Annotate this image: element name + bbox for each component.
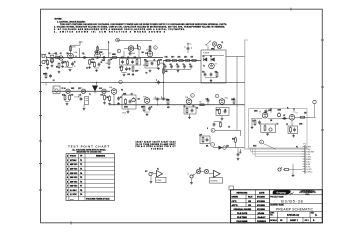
ground harness — [239, 149, 242, 154]
stage box V5 — [184, 107, 196, 114]
ground below lamp — [58, 71, 61, 74]
svg-text:07/13/98: 07/13/98 — [257, 205, 266, 207]
svg-text:CK'D: CK'D — [232, 201, 237, 203]
zone tick right B — [321, 86, 324, 88]
wire lamp drop — [214, 46, 216, 50]
svg-text:LEV: LEV — [199, 134, 202, 136]
capacitor C39 — [258, 120, 261, 124]
svg-text:VOLTAGES TAKEN AT IDLE: VOLTAGES TAKEN AT IDLE — [86, 197, 110, 200]
connector pin labels — [306, 146, 315, 173]
stage box V4 — [122, 95, 136, 109]
svg-text:T3: T3 — [80, 169, 82, 171]
svg-text:APP'D: APP'D — [232, 204, 239, 207]
circled X node — [116, 38, 120, 42]
connector pins — [303, 147, 306, 172]
wire v4b join — [144, 111, 150, 113]
svg-text:07/13/98: 07/13/98 — [257, 209, 266, 211]
capacitor CP2 — [210, 72, 213, 76]
svg-text:.02: .02 — [127, 57, 129, 59]
tube V1B — [95, 51, 101, 59]
svg-text:68K: 68K — [55, 53, 58, 55]
jack J4 — [187, 174, 194, 179]
resistor R42 in box — [290, 126, 292, 133]
revision table rows — [231, 194, 270, 218]
svg-text:.01: .01 — [53, 80, 55, 82]
circled node K — [313, 100, 316, 117]
chassis box corner — [245, 40, 303, 149]
wire main signal bus — [46, 57, 163, 59]
resistor R28 under V5B — [220, 121, 222, 128]
small rect above title block — [229, 186, 234, 190]
V7 sub box — [288, 126, 298, 134]
capacitor top CF6 — [187, 46, 190, 53]
svg-text:T8: T8 — [80, 190, 82, 192]
revision table column — [255, 190, 257, 223]
wire V1B plate — [97, 46, 99, 53]
wire r44 drop — [292, 164, 294, 174]
svg-text:B+: B+ — [190, 44, 192, 46]
capacitor C31 — [237, 152, 240, 156]
svg-text:250P: 250P — [135, 71, 139, 73]
svg-text:100K: 100K — [299, 124, 303, 126]
lamp L5 — [204, 169, 208, 173]
amp triangle A2 — [209, 170, 220, 177]
capacitor C8 — [129, 51, 136, 55]
power box outline — [201, 50, 226, 83]
svg-text:.02: .02 — [82, 53, 84, 55]
svg-text:09:45:17: 09:45:17 — [258, 216, 267, 219]
svg-text:P1: P1 — [296, 147, 298, 149]
svg-text:2: 2 — [67, 164, 68, 166]
wire filter bus — [163, 60, 201, 62]
zone tick bottom — [70, 222, 72, 225]
chart outer box — [66, 154, 115, 201]
junction dot rail 2 — [96, 82, 97, 83]
zone tick left D — [39, 140, 42, 142]
svg-text:#: # — [67, 156, 68, 158]
value labels bottom — [145, 128, 235, 173]
amp triangle A1 — [153, 171, 163, 178]
node arrow above filter — [187, 42, 191, 46]
circled grid 4 — [154, 46, 158, 50]
wire j4 up — [193, 172, 204, 176]
svg-text:D2: D2 — [210, 56, 212, 58]
pot in V6 box — [269, 128, 272, 131]
wire j6 to conn — [290, 169, 303, 171]
tube V6 — [259, 112, 268, 119]
ground V2 cathode — [149, 70, 152, 73]
svg-text:V4: V4 — [121, 90, 123, 92]
wire box drop — [127, 109, 129, 111]
svg-text:07/13/98: 07/13/98 — [257, 201, 266, 203]
resistor R10 tone — [127, 58, 129, 65]
svg-text:C4: C4 — [86, 68, 88, 70]
svg-text:2: 2 — [118, 51, 119, 53]
svg-text:220K: 220K — [123, 93, 127, 95]
ground v6 left — [251, 126, 254, 129]
tube V1A — [68, 51, 78, 59]
node arrow V7 — [293, 108, 295, 113]
svg-text:180 VDC: 180 VDC — [70, 181, 78, 183]
svg-text:P1: P1 — [304, 143, 306, 145]
capacitor C9 cathode — [151, 61, 154, 65]
resistor R24 — [186, 107, 188, 114]
svg-text:V1B: V1B — [95, 52, 98, 54]
rail drop left cluster cap — [49, 74, 52, 78]
ground J4 — [190, 182, 193, 185]
svg-text:325 VDC: 325 VDC — [70, 173, 78, 175]
capacitor CF2 — [170, 64, 173, 68]
label B+ points — [167, 56, 189, 59]
svg-text:8: 8 — [67, 190, 68, 192]
wire mid link — [129, 49, 131, 52]
jack J2 — [42, 60, 46, 64]
svg-text:820: 820 — [143, 65, 146, 67]
zone tick left B — [39, 91, 42, 93]
wire V1 grid vertical — [79, 48, 81, 58]
svg-text:F1: F1 — [54, 88, 56, 90]
capacitor C1 — [61, 60, 66, 64]
resistor R12 plate — [149, 45, 151, 52]
svg-text:T2: T2 — [203, 66, 205, 68]
pot VR6 — [277, 112, 280, 117]
svg-text:10K: 10K — [134, 57, 137, 59]
svg-text:R6: R6 — [67, 53, 69, 55]
capacitor C6 tone — [121, 60, 124, 69]
capacitor C26 — [207, 98, 210, 105]
pot VR5 — [132, 97, 135, 102]
zone tick top — [290, 8, 292, 11]
svg-text:T9: T9 — [80, 194, 82, 196]
value labels right section — [253, 108, 307, 127]
chart column line 3 — [84, 154, 86, 201]
junction v6 left — [251, 118, 252, 119]
rail drop left cluster resistor — [45, 72, 47, 79]
svg-text:820: 820 — [91, 62, 94, 64]
chart cell text — [67, 155, 110, 201]
tube V7 — [289, 113, 297, 121]
svg-text:10: 10 — [189, 64, 191, 66]
capacitor CF4 — [183, 64, 186, 68]
capacitor C7 tone — [131, 60, 134, 64]
junction dots above — [184, 46, 192, 48]
pot VR3 treble circled — [137, 46, 141, 57]
svg-text:1/14/98: 1/14/98 — [258, 212, 266, 215]
capacitor CH1 — [80, 97, 83, 101]
arrow mid filled — [137, 44, 139, 49]
lamp PL2 — [217, 44, 221, 48]
ground tone lower — [123, 74, 126, 77]
fuse box F1 — [53, 86, 60, 94]
tube chart text — [136, 141, 177, 151]
tube V2A — [146, 49, 153, 57]
junction dot filter in — [166, 60, 167, 61]
circled ref J5 — [260, 140, 264, 144]
resistor R9 series — [111, 54, 118, 58]
svg-text:6: 6 — [192, 95, 193, 97]
svg-text:300 VDC: 300 VDC — [70, 177, 78, 179]
svg-text:25: 25 — [225, 110, 227, 112]
svg-text:07/13/98: 07/13/98 — [257, 197, 266, 199]
circled num 7 — [215, 94, 219, 98]
resistor R21 — [125, 98, 127, 105]
svg-text:R17: R17 — [101, 95, 104, 97]
stage box V5B — [216, 108, 229, 116]
svg-text:.02: .02 — [283, 115, 285, 117]
capacitor C4 cathode — [98, 62, 101, 66]
wire j4 drop — [191, 178, 193, 181]
svg-text:REVERB: REVERB — [211, 180, 219, 182]
resistor RF2 — [171, 60, 178, 62]
resistor R44 — [283, 169, 290, 171]
tube V5B — [219, 98, 228, 105]
value labels stage V1 — [47, 53, 77, 68]
svg-text:PREAMP SCHEMATIC: PREAMP SCHEMATIC — [276, 208, 314, 212]
wire B+ top — [71, 44, 81, 46]
resistor RF5 — [191, 60, 198, 62]
capacitor C21 — [129, 99, 132, 103]
resistor R41 in box — [264, 125, 266, 132]
capacitor tone lower — [125, 67, 128, 71]
ground small circuit — [292, 174, 295, 177]
svg-text:6: 6 — [67, 181, 68, 183]
connector P1 body — [304, 143, 306, 173]
wire v6 plate up — [264, 110, 266, 113]
svg-text:.1: .1 — [155, 97, 156, 99]
ground stage box — [127, 111, 130, 114]
svg-text:100K: 100K — [231, 99, 235, 101]
svg-text:SCALE: SCALE — [270, 219, 277, 222]
wire V2 plate — [149, 46, 151, 52]
svg-text:1K: 1K — [253, 120, 255, 122]
zone tick left E — [39, 163, 42, 165]
resistor R30 — [235, 137, 237, 144]
svg-text:160 VDC: 160 VDC — [70, 186, 78, 188]
ground C1 — [61, 65, 64, 68]
lamp L4 — [196, 169, 200, 173]
can capacitor CH2 — [85, 97, 89, 105]
svg-text:SW2: SW2 — [71, 88, 74, 90]
V6 sub box — [261, 124, 276, 132]
wire tone lower join — [122, 71, 127, 73]
svg-text:50: 50 — [193, 105, 195, 107]
svg-text:T5: T5 — [80, 177, 82, 179]
box A2 — [210, 178, 223, 184]
svg-text:V3: V3 — [215, 64, 217, 66]
svg-text:C30: C30 — [226, 146, 229, 148]
svg-text:470K: 470K — [91, 59, 95, 61]
svg-text:B+: B+ — [81, 42, 83, 44]
resistor RF1 — [165, 60, 172, 62]
ground R20 — [108, 103, 111, 106]
svg-text:B3/B5-38: B3/B5-38 — [281, 200, 303, 204]
chart column line 1 — [68, 154, 70, 201]
ground J3 — [150, 181, 153, 184]
zone tick left A — [39, 65, 42, 67]
svg-text:VOLTS: VOLTS — [70, 156, 77, 158]
svg-text:1.2 VDC: 1.2 VDC — [70, 194, 77, 196]
revision table divider — [269, 190, 271, 223]
wire tone out — [123, 51, 125, 58]
svg-text:13050502: 13050502 — [257, 221, 267, 223]
dwg no cells — [277, 212, 279, 218]
svg-text:7: 7 — [216, 96, 217, 98]
resistor R23 — [167, 99, 169, 106]
svg-text:50: 50 — [277, 124, 279, 126]
svg-text:RCH: RCH — [248, 197, 253, 199]
ground power box — [210, 79, 213, 82]
svg-text:25: 25 — [74, 66, 76, 68]
wire switch drop — [207, 46, 209, 51]
svg-text:R16: R16 — [71, 95, 74, 97]
resistor in level box — [202, 136, 204, 143]
value labels heater row — [62, 87, 104, 96]
svg-text:3: 3 — [138, 48, 139, 50]
resistor R14 tail — [158, 59, 165, 66]
svg-text:220K: 220K — [99, 52, 103, 54]
capacitor C5 coupling — [102, 54, 107, 59]
wire cathode join 2 — [95, 67, 100, 69]
tube V4A — [109, 86, 117, 94]
junction dot rail 1 — [69, 82, 70, 83]
wire power bottom rail — [205, 77, 217, 79]
svg-text:SW1: SW1 — [211, 48, 214, 50]
capacitor C41 series — [282, 117, 286, 120]
tube V3 rectifier — [209, 63, 217, 69]
svg-text:C15: C15 — [79, 95, 82, 97]
wire box down right — [236, 57, 238, 105]
rail left cluster labels — [43, 74, 55, 82]
resistor R2 — [54, 55, 61, 59]
ground R5 — [88, 66, 91, 69]
svg-text:250K: 250K — [278, 110, 282, 112]
chart column line 2 — [78, 154, 80, 201]
svg-text:10 GRY: 10 GRY — [306, 169, 313, 171]
ground rail long — [41, 81, 245, 83]
svg-text:.02: .02 — [60, 53, 62, 55]
resistor RF4 — [184, 60, 191, 62]
node arrow V6 — [270, 108, 272, 113]
ground mid lower — [132, 73, 135, 76]
svg-text:9: 9 — [212, 144, 213, 146]
chart row lines — [66, 158, 115, 196]
svg-text:8: 8 — [212, 130, 213, 132]
jack J6 — [278, 167, 282, 171]
svg-text:220K: 220K — [254, 111, 258, 113]
svg-text:870538-02: 870538-02 — [287, 214, 300, 217]
resistor input shunt — [47, 59, 49, 66]
capacitor C42 in box — [293, 128, 296, 132]
wire v5a drop — [189, 114, 191, 116]
wire diode bus — [203, 55, 225, 57]
svg-text:5: 5 — [67, 177, 68, 179]
svg-text:470K: 470K — [112, 54, 116, 56]
wire v6 left drop — [251, 119, 253, 126]
arrow wiper — [219, 146, 223, 150]
resistor R3 plate — [70, 45, 77, 52]
svg-text:D.: D. — [315, 215, 318, 217]
wire ch2 drop — [83, 105, 85, 108]
resistor RH1 — [64, 94, 66, 101]
svg-text:V2: V2 — [146, 73, 148, 75]
wire heater join — [65, 101, 70, 103]
wire stage bus — [110, 104, 245, 106]
wire box to right — [226, 56, 245, 58]
capacitor CF1 — [163, 64, 166, 71]
capacitor C24 series — [161, 98, 165, 101]
ground V5A — [188, 116, 191, 119]
title right rows — [270, 195, 323, 218]
svg-text:4 YEL: 4 YEL — [306, 154, 310, 156]
wire c23 link — [153, 98, 168, 100]
svg-text:C6: C6 — [119, 67, 121, 69]
pot circled 9 — [211, 143, 215, 147]
svg-text:.047: .047 — [121, 57, 124, 59]
diode D1 — [204, 58, 208, 62]
resistor R43 out — [299, 116, 306, 118]
address text — [299, 189, 316, 195]
ground heater 1 — [66, 103, 69, 106]
resistor R25 series — [199, 102, 206, 106]
input coupling box — [50, 55, 54, 62]
resistor R6 plate — [97, 46, 99, 53]
svg-text:NOTES: NOTES — [55, 19, 63, 21]
wire v6 left join — [252, 118, 262, 120]
title block outer — [231, 190, 323, 223]
company logo — [273, 190, 295, 195]
value labels second row — [106, 93, 235, 111]
lamp PL1 — [212, 42, 216, 46]
svg-text:JW: JW — [248, 201, 251, 203]
svg-text:100K: 100K — [159, 59, 163, 61]
zone tick right A — [321, 39, 324, 41]
wire v7 cluster drop — [291, 120, 293, 126]
ground RH3 — [103, 102, 106, 105]
svg-text:R30: R30 — [232, 139, 235, 141]
svg-text:250P: 250P — [132, 53, 136, 55]
svg-text:1.5K: 1.5K — [63, 62, 66, 64]
svg-text:20: 20 — [183, 64, 185, 66]
svg-text:T6: T6 — [80, 181, 82, 183]
resistor R11 tone — [136, 58, 138, 65]
svg-text:POWER: POWER — [203, 53, 210, 55]
svg-text:ORIGINAL ISSUED: ORIGINAL ISSUED — [234, 208, 252, 211]
svg-text:TEST POINT CHART: TEST POINT CHART — [68, 145, 110, 149]
ground V5B — [221, 118, 224, 121]
circled node 10 — [223, 146, 227, 150]
svg-text:100K: 100K — [268, 110, 272, 112]
svg-text:.02: .02 — [131, 93, 133, 95]
node B+ arrow — [79, 41, 83, 45]
wire v7 drop — [293, 134, 295, 135]
svg-text:FILE TIME: FILE TIME — [237, 217, 247, 219]
svg-text:117VAC: 117VAC — [70, 159, 77, 162]
diode D2 — [211, 58, 215, 62]
tube V4B — [143, 97, 150, 104]
svg-text:470K: 470K — [166, 100, 170, 102]
svg-text:420 VDC: 420 VDC — [70, 168, 78, 171]
svg-text:T2: T2 — [80, 164, 82, 166]
svg-text:25: 25 — [151, 106, 153, 108]
svg-text:R15: R15 — [62, 95, 65, 97]
svg-text:.005: .005 — [127, 74, 130, 76]
rail stub down 1 — [45, 82, 47, 85]
resistor R7 cathode — [94, 61, 96, 68]
harness drop 2 — [253, 148, 303, 154]
junction v7 — [284, 118, 285, 119]
svg-text:4: 4 — [67, 172, 68, 175]
wire c31 up — [237, 148, 239, 153]
